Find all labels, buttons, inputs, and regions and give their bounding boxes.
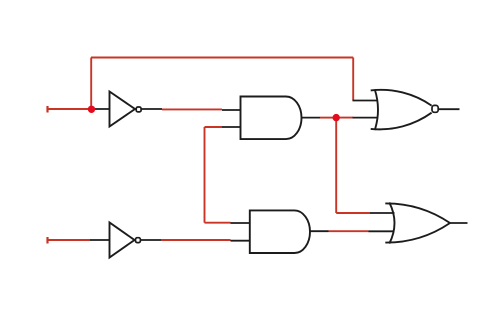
- AND gate U4: [250, 210, 310, 253]
- AND gate U3 input stub top: [222, 109, 241, 111]
- input terminal B: [46, 237, 48, 244]
- AND gate U4 output stub: [310, 230, 329, 232]
- AND gate U4 input stub bottom: [231, 240, 251, 242]
- wire A to junction J1: [48, 108, 92, 110]
- node J2: [333, 114, 340, 121]
- inverter U1 input stub: [91, 108, 110, 110]
- wire U2 to U4 bottom input: [161, 239, 231, 241]
- wire corner to U3 bottom input: [205, 126, 223, 128]
- wire J2 to U5 bottom input: [336, 117, 353, 119]
- OR gate U6 output stub: [450, 222, 468, 224]
- node J1: [88, 106, 95, 113]
- inverter U2 output stub: [141, 239, 161, 241]
- wire vertical down from U3 bottom input corner: [204, 127, 206, 223]
- OR gate U6 input stub bottom: [369, 230, 395, 232]
- wire U3 output to junction J2: [320, 117, 336, 119]
- AND gate U3: [241, 97, 302, 140]
- NOR gate U5 input stub bottom: [353, 117, 378, 119]
- OR gate U6: [385, 202, 450, 243]
- NOR gate U5: [371, 90, 439, 131]
- OR gate U6 input stub top: [370, 212, 395, 214]
- inverter U1 output stub: [141, 108, 162, 110]
- wire U4 output to U6 bottom input: [329, 230, 369, 232]
- inverter U2: [110, 223, 141, 258]
- wire J1 up: [90, 58, 92, 110]
- input terminal A: [46, 106, 48, 113]
- inverter U2 input stub: [90, 239, 110, 241]
- wire corner to U6 top input: [336, 212, 370, 214]
- NOR gate U5 output stub: [439, 108, 460, 110]
- wire feedback down to U5 top input: [352, 58, 354, 101]
- wire corner to U4 top input: [205, 222, 231, 224]
- wire B to inverter U2: [48, 239, 91, 241]
- AND gate U3 output stub: [302, 117, 321, 119]
- wire feedback top horizontal: [91, 57, 353, 59]
- inverter U1: [110, 92, 142, 127]
- AND gate U3 input stub bottom: [222, 126, 241, 128]
- NOR gate U5 input stub top: [353, 100, 378, 102]
- wire U1 to U3 top input: [162, 108, 222, 110]
- AND gate U4 input stub top: [231, 222, 251, 224]
- wire J2 down: [335, 118, 337, 213]
